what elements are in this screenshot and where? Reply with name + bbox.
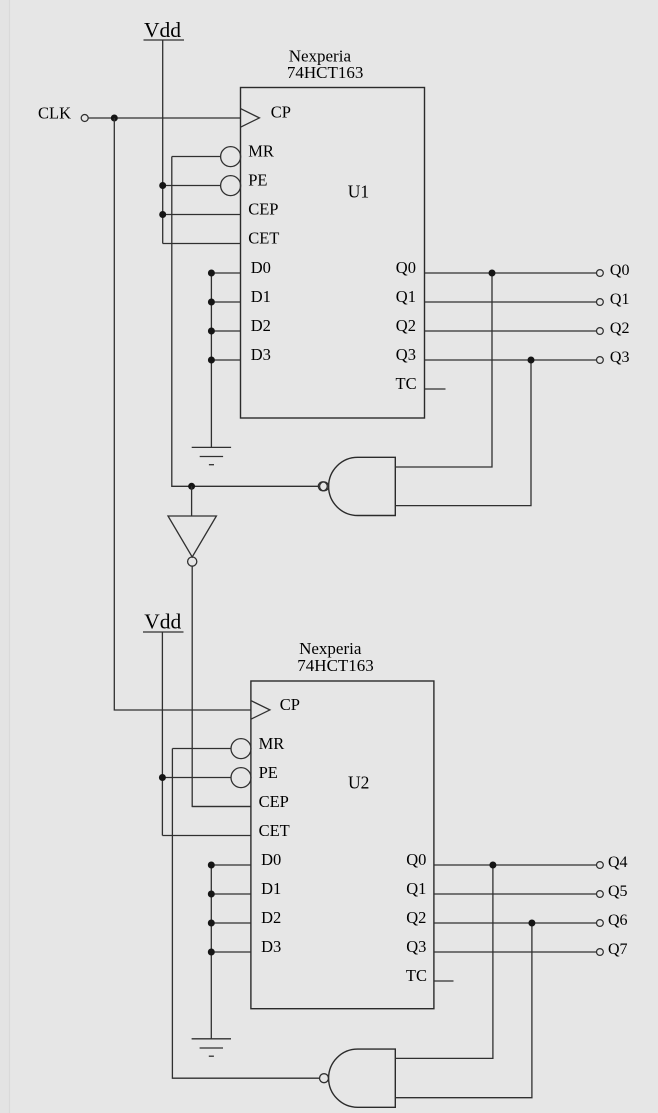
svg-text:Q2: Q2 xyxy=(396,316,416,335)
svg-text:PE: PE xyxy=(259,763,278,782)
svg-text:CEP: CEP xyxy=(248,200,278,219)
svg-text:U1: U1 xyxy=(348,182,369,202)
svg-text:MR: MR xyxy=(248,142,274,161)
svg-text:CP: CP xyxy=(280,695,300,714)
svg-text:Q4: Q4 xyxy=(608,854,628,871)
svg-text:CET: CET xyxy=(259,821,290,840)
svg-text:U2: U2 xyxy=(348,773,369,793)
svg-text:MR: MR xyxy=(259,734,285,753)
svg-text:Q2: Q2 xyxy=(610,320,630,337)
svg-text:74HCT163: 74HCT163 xyxy=(287,63,364,82)
svg-text:TC: TC xyxy=(406,966,427,985)
svg-text:D3: D3 xyxy=(251,345,271,364)
svg-text:D1: D1 xyxy=(261,879,281,898)
svg-text:Q7: Q7 xyxy=(608,941,628,958)
svg-text:TC: TC xyxy=(396,374,417,393)
svg-text:74HCT163: 74HCT163 xyxy=(297,656,374,675)
svg-text:Q1: Q1 xyxy=(610,291,630,308)
svg-text:D3: D3 xyxy=(261,937,281,956)
svg-text:Q5: Q5 xyxy=(608,883,628,900)
svg-text:D0: D0 xyxy=(251,258,271,277)
svg-text:Q0: Q0 xyxy=(610,262,630,279)
svg-text:D2: D2 xyxy=(261,908,281,927)
svg-text:Q3: Q3 xyxy=(610,349,630,366)
svg-text:D1: D1 xyxy=(251,287,271,306)
svg-text:Q0: Q0 xyxy=(406,850,426,869)
svg-text:CP: CP xyxy=(271,103,291,122)
svg-text:Q1: Q1 xyxy=(406,879,426,898)
svg-text:CET: CET xyxy=(248,229,279,248)
svg-text:CLK: CLK xyxy=(38,104,71,123)
svg-text:Q0: Q0 xyxy=(396,258,416,277)
svg-text:D0: D0 xyxy=(261,850,281,869)
svg-text:Q1: Q1 xyxy=(396,287,416,306)
svg-text:Q3: Q3 xyxy=(396,345,416,364)
svg-text:Vdd: Vdd xyxy=(144,610,181,634)
svg-text:Q2: Q2 xyxy=(406,908,426,927)
svg-text:D2: D2 xyxy=(251,316,271,335)
svg-text:Q3: Q3 xyxy=(406,937,426,956)
svg-text:CEP: CEP xyxy=(259,792,289,811)
svg-text:Q6: Q6 xyxy=(608,912,628,929)
svg-text:Vdd: Vdd xyxy=(144,18,181,42)
svg-text:PE: PE xyxy=(248,171,267,190)
